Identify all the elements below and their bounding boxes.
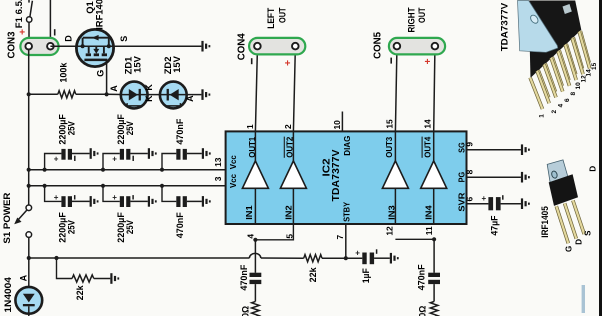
svg-text:2: 2 xyxy=(551,110,558,114)
TDA7377V package notch xyxy=(563,4,572,14)
transistor Q1 IRF1405 xyxy=(76,29,113,66)
IRF1405 package tab xyxy=(547,160,568,183)
wire pin8 PG to ground xyxy=(467,176,521,178)
wire OUT2 to CON4 xyxy=(293,50,295,132)
capacitor 47µF (SVR) xyxy=(467,197,521,210)
svg-text:25V: 25V xyxy=(124,219,135,234)
junction dot STBY node xyxy=(344,256,348,260)
svg-text:8: 8 xyxy=(465,169,475,174)
wire pin5 to pin4 tie xyxy=(255,224,293,240)
svg-text:K: K xyxy=(144,95,154,102)
TDA7377V front pin 5 xyxy=(544,65,556,98)
svg-text:15: 15 xyxy=(591,62,598,70)
wire OUT1 to CON4 xyxy=(255,50,257,132)
wire input right channel down xyxy=(433,239,435,272)
CON3 minus mark xyxy=(54,29,56,35)
wire Q1 gate down xyxy=(106,61,108,94)
svg-text:47µF: 47µF xyxy=(489,215,500,235)
junction dot rail2 x=44.6 xyxy=(43,184,47,188)
svg-text:+: + xyxy=(19,28,25,39)
TDA7377V back pin 6 xyxy=(552,57,562,86)
svg-text:10: 10 xyxy=(332,120,342,130)
svg-text:15V: 15V xyxy=(132,55,143,72)
TDA7377V back pin 4 xyxy=(545,64,555,92)
svg-text:1: 1 xyxy=(245,124,255,129)
svg-text:K: K xyxy=(144,84,154,91)
ground (SG) xyxy=(521,144,530,155)
svg-text:D: D xyxy=(63,35,73,42)
svg-text:+: + xyxy=(112,193,117,202)
C1 minus mark xyxy=(74,156,76,161)
wire branch to lower 22k xyxy=(57,258,73,279)
TDA7377V back pin 14 xyxy=(580,31,589,63)
IRF1405 pin D xyxy=(565,203,577,238)
svg-text:A: A xyxy=(18,274,28,281)
svg-text:TDA7377V: TDA7377V xyxy=(330,150,342,202)
junction dot Q1 drain xyxy=(81,44,85,48)
svg-text:+: + xyxy=(54,154,59,163)
TDA7377V front pin 13 xyxy=(572,38,583,74)
ground (zener line) xyxy=(201,89,210,100)
C2 minus mark xyxy=(132,156,134,161)
capacitor C4 2200µF (lower row) xyxy=(45,186,90,207)
svg-text:14: 14 xyxy=(423,119,433,129)
svg-text:6: 6 xyxy=(564,98,571,102)
capacitor C1 2200µF (upper row) xyxy=(45,149,90,170)
wire input left channel down xyxy=(254,240,256,273)
svg-text:+: + xyxy=(425,57,431,68)
svg-text:13: 13 xyxy=(213,157,223,167)
svg-text:STBY: STBY xyxy=(341,202,351,222)
junction dot rail1 x=103 xyxy=(101,168,105,172)
svg-text:470nF: 470nF xyxy=(238,264,249,290)
wire pin 10 DIAG stub xyxy=(341,112,343,132)
decorative blue bar xyxy=(582,285,585,313)
junction dot rail1 x=44.6 xyxy=(43,168,47,172)
junction dot pin4 node xyxy=(253,238,257,242)
svg-text:0Ω: 0Ω xyxy=(417,305,428,316)
junction dot Q1 source xyxy=(107,44,111,48)
CON4 minus mark xyxy=(251,58,253,64)
svg-text:+: + xyxy=(285,58,291,69)
svg-text:4: 4 xyxy=(558,104,565,108)
TDA7377V package body xyxy=(529,1,582,78)
svg-text:22k: 22k xyxy=(307,267,318,283)
ground (SVR) xyxy=(521,198,530,209)
capacitor C5 2200µF (lower row) xyxy=(103,186,148,207)
wire CON3 minus terminal up xyxy=(49,0,51,43)
capacitor 470nF (left input) xyxy=(250,273,262,302)
diode D1 1N4004 xyxy=(15,258,42,316)
page right border xyxy=(599,0,602,316)
wire CON3 to Q1 drain xyxy=(50,45,76,47)
svg-text:+: + xyxy=(355,248,360,257)
svg-text:2: 2 xyxy=(283,124,293,129)
svg-text:IN1: IN1 xyxy=(244,205,254,220)
ground (PG) xyxy=(521,172,530,183)
svg-text:IN4: IN4 xyxy=(424,205,434,220)
svg-text:OUT4: OUT4 xyxy=(422,137,432,158)
svg-text:D: D xyxy=(589,166,598,172)
wire OUT4 to CON5 xyxy=(434,50,435,132)
op-amp A4 (IC2) xyxy=(421,131,447,224)
svg-text:6: 6 xyxy=(465,197,475,202)
1µF minus mark xyxy=(376,249,378,254)
capacitor 1µF xyxy=(346,253,390,265)
svg-text:CON5: CON5 xyxy=(373,31,384,59)
svg-text:+: + xyxy=(54,193,59,202)
svg-text:OUT: OUT xyxy=(277,7,287,23)
svg-text:IN2: IN2 xyxy=(284,205,294,220)
junction dot 22k branch xyxy=(54,256,58,260)
IRF1405 package body xyxy=(549,174,578,206)
op-amp A3 (IC2) xyxy=(382,131,408,224)
wire hop over input xyxy=(249,253,260,258)
zener diode ZD2 xyxy=(160,82,187,109)
svg-text:1N4004: 1N4004 xyxy=(2,276,13,312)
junction dot 100k left xyxy=(27,92,31,96)
junction dot pin11 node xyxy=(432,237,436,241)
connector CON3 xyxy=(20,38,58,55)
resistor 22k (STBY) xyxy=(304,255,322,262)
TDA7377V package tab xyxy=(518,1,558,53)
svg-text:A: A xyxy=(185,95,195,102)
junction dot rail1 x=28.7 xyxy=(27,168,31,172)
ground (source line) xyxy=(201,41,210,52)
svg-text:S: S xyxy=(583,230,592,236)
wire hop to 22k xyxy=(261,257,304,259)
wire OUT3 to CON5 xyxy=(395,50,397,132)
op-amp A2 (IC2) xyxy=(280,131,306,224)
svg-text:OUT1: OUT1 xyxy=(247,137,257,158)
svg-text:25V: 25V xyxy=(124,121,135,136)
C5 minus mark xyxy=(132,195,134,199)
zener diode ZD1 xyxy=(121,82,148,109)
C4 minus mark xyxy=(74,195,76,199)
svg-text:3: 3 xyxy=(213,176,223,181)
junction dot bottom node xyxy=(27,256,31,260)
svg-text:CON4: CON4 xyxy=(237,33,248,61)
IRF1405 pin S xyxy=(573,200,584,234)
svg-text:0Ω: 0Ω xyxy=(240,305,251,316)
IRF1405 pin G xyxy=(556,206,568,243)
wire gate node to ZD1 xyxy=(107,93,121,95)
svg-text:OUT3: OUT3 xyxy=(384,137,394,158)
TDA7377V front pin 3 xyxy=(537,71,549,103)
svg-text:OUT2: OUT2 xyxy=(285,137,295,158)
junction dot rail1 x=162 xyxy=(160,168,164,172)
junction dot gate node xyxy=(105,92,109,96)
svg-text:G: G xyxy=(95,70,105,77)
wire ZD1 to ZD2 xyxy=(148,94,161,96)
svg-text:TDA7377V: TDA7377V xyxy=(499,2,510,51)
TDA7377V back pin 8 xyxy=(559,50,569,80)
svg-text:100k: 100k xyxy=(57,62,68,83)
TDA7377V front pin 11 xyxy=(565,45,576,80)
svg-text:22k: 22k xyxy=(74,285,85,301)
CON5 minus mark xyxy=(390,58,392,64)
TDA7377V front pin 15 xyxy=(579,32,590,69)
ground (C3) xyxy=(202,148,211,159)
op-amp A1 (IC2) xyxy=(242,131,268,224)
svg-text:Vcc: Vcc xyxy=(228,155,238,169)
svg-text:1µF: 1µF xyxy=(360,268,371,283)
svg-text:Vcc: Vcc xyxy=(228,174,238,188)
svg-text:G: G xyxy=(565,246,574,252)
svg-text:OUT: OUT xyxy=(417,7,427,23)
svg-text:A: A xyxy=(109,85,119,92)
ground (C1) xyxy=(90,148,99,159)
svg-text:CON3: CON3 xyxy=(6,31,17,59)
ground (C4) xyxy=(90,196,99,207)
svg-text:11: 11 xyxy=(424,226,434,235)
wire pin9 SG to ground xyxy=(467,149,521,151)
connector CON5 xyxy=(389,38,445,55)
ground (C2) xyxy=(148,148,157,159)
svg-text:+: + xyxy=(112,154,117,163)
svg-text:S: S xyxy=(119,36,129,42)
svg-text:1: 1 xyxy=(539,114,546,118)
svg-text:IRF1405: IRF1405 xyxy=(539,206,550,238)
ground (C6) xyxy=(202,196,211,207)
connector CON4 xyxy=(249,38,305,55)
svg-text:25V: 25V xyxy=(66,219,77,234)
svg-text:DIAG: DIAG xyxy=(342,135,352,155)
IRF1405 package tab hole xyxy=(551,170,558,179)
svg-text:7: 7 xyxy=(335,235,345,240)
wire rail to pin 3 xyxy=(29,185,226,187)
resistor 0Ω (right input) xyxy=(430,302,438,316)
svg-text:470nF: 470nF xyxy=(174,118,185,144)
wire rail to pin 13 xyxy=(29,169,226,171)
capacitor C6 470nF (lower row) xyxy=(162,186,202,207)
TDA7377V back pin 2 xyxy=(538,70,549,98)
svg-text:IRF1405: IRF1405 xyxy=(94,0,105,30)
svg-text:15V: 15V xyxy=(171,55,182,72)
svg-text:25V: 25V xyxy=(66,121,77,136)
capacitor C2 2200µF (upper row) xyxy=(103,149,148,170)
svg-text:+: + xyxy=(482,194,487,203)
wire pin7 STBY down xyxy=(345,224,347,258)
svg-text:RIGHT: RIGHT xyxy=(407,7,417,32)
wire S1 to bottom node xyxy=(28,237,30,258)
svg-text:4: 4 xyxy=(246,234,256,239)
TDA7377V package tab hole xyxy=(529,14,539,25)
wire pin12 to pin11 tie xyxy=(395,238,434,240)
svg-text:D: D xyxy=(575,239,584,245)
ground (1µF) xyxy=(390,253,399,264)
svg-text:LEFT: LEFT xyxy=(266,7,276,28)
ground (22k pull-down) xyxy=(110,273,119,284)
fuse F1 xyxy=(27,0,33,43)
svg-text:IN3: IN3 xyxy=(387,205,397,220)
resistor R 100k xyxy=(29,93,58,95)
svg-text:12: 12 xyxy=(385,226,395,236)
svg-text:S1 POWER: S1 POWER xyxy=(1,192,12,243)
op-amp IC2 TDA7377V body xyxy=(226,131,467,224)
ground (C5) xyxy=(148,196,157,207)
wire bottom node row xyxy=(29,257,250,259)
svg-text:9: 9 xyxy=(465,142,475,147)
svg-text:15: 15 xyxy=(384,119,394,129)
wire Q1 source to ground xyxy=(114,45,202,47)
svg-text:F1 6.5A: F1 6.5A xyxy=(13,0,24,28)
TDA7377V front pin 9 xyxy=(558,51,569,85)
TDA7377V back pin 10 xyxy=(566,44,576,75)
wire ZD2 to ground xyxy=(187,94,202,96)
wire CON3 plus column down xyxy=(28,50,30,206)
TDA7377V front pin 1 xyxy=(530,78,542,109)
svg-text:470nF: 470nF xyxy=(416,264,427,290)
junction dot rail2 x=162 xyxy=(160,184,164,188)
capacitor 470nF (right input) xyxy=(428,273,440,302)
junction dot rail2 x=103 xyxy=(101,184,105,188)
svg-text:8: 8 xyxy=(570,92,577,96)
TDA7377V back pin 12 xyxy=(573,37,582,68)
junction dot rail2 x=28.7 xyxy=(27,184,31,188)
TDA7377V front pin 7 xyxy=(551,58,563,92)
47µF minus mark xyxy=(502,195,504,200)
svg-text:470nF: 470nF xyxy=(174,212,185,238)
resistor 22k (pull-down) xyxy=(72,275,94,282)
switch S1 POWER xyxy=(14,205,31,237)
resistor 0Ω (left input) xyxy=(252,302,260,316)
capacitor C3 470nF (upper row) xyxy=(162,149,202,170)
